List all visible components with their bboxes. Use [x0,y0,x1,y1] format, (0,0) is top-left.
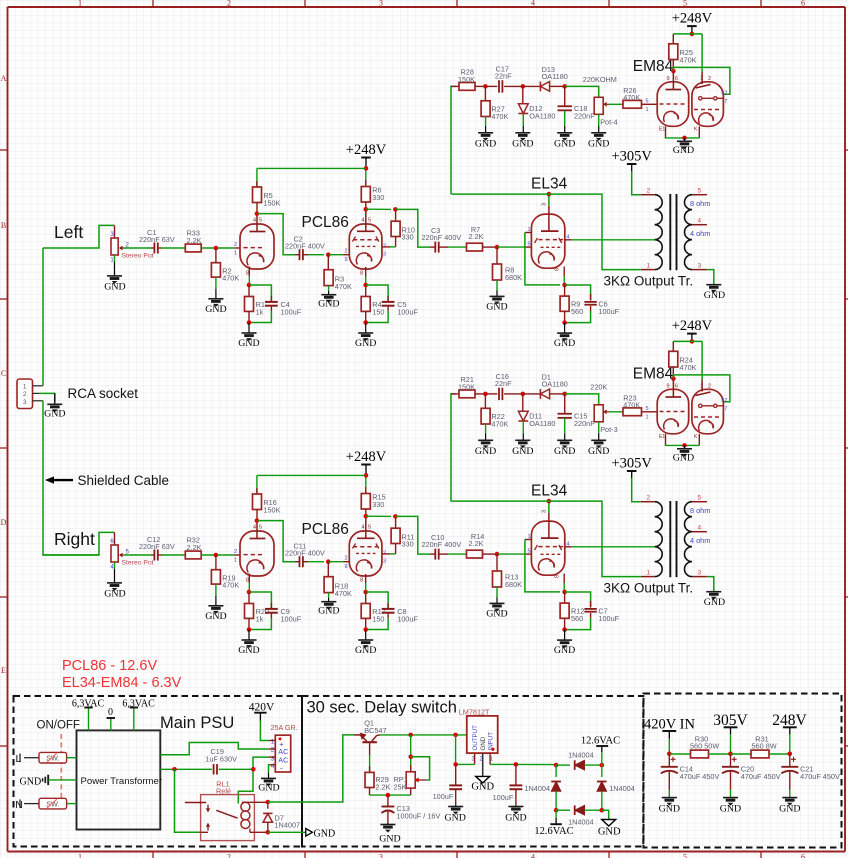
wire EM84 cathodes to ground [665,444,700,446]
resistor R14 2.2K grid stopper [448,532,497,558]
svg-text:GND: GND [258,783,279,794]
ground C20 [720,797,741,815]
ground R8 [486,291,507,313]
svg-text:OUTPUT: OUTPUT [472,725,479,751]
svg-text:GND: GND [704,290,725,301]
wire regulator output bus [456,735,475,765]
svg-text:GND: GND [318,299,339,310]
junction R10 top [393,207,398,212]
capacitor C14 470uF 450V [661,754,720,797]
svg-text:3: 3 [698,263,702,270]
ground R12 [554,630,575,656]
regulator LM7812T [459,707,498,764]
resistor R1 1k cathode [245,285,265,323]
svg-text:1: 1 [271,738,275,745]
ground Pot-4 [588,126,609,150]
wire grid node to EL34 pin5 Left [497,246,531,248]
resistor R10 330 build-out [366,209,415,247]
svg-text:1: 1 [645,107,648,113]
svg-text:330: 330 [372,193,384,202]
resistor R27 470K [481,86,508,126]
svg-text:0: 0 [108,707,113,718]
wire grid node to EL34 pin5 Right [497,553,531,555]
wire triode cathode Right [248,583,250,592]
wire pentode plate to R10 [382,246,390,248]
resistor R20 1k cathode [245,592,269,630]
junction cathode node R1 [247,283,252,288]
svg-text:1: 1 [234,558,237,564]
wire RP1 wiper loop [411,757,430,780]
capacitor C9 100uF bypass [249,592,302,630]
junction R27 [483,84,488,89]
transformer TR2 primary [641,495,662,577]
svg-text:3: 3 [698,570,702,577]
junction R24 bottom [671,376,676,381]
junction EL34 cathode node Left [562,283,567,288]
wire +305V to transformer Right [632,478,641,502]
svg-text:GND: GND [355,338,376,349]
svg-text:470K: 470K [491,419,508,428]
svg-text:5: 5 [698,495,702,502]
svg-text:22nF: 22nF [495,379,512,388]
ground R19 [205,596,226,622]
svg-text:+248V: +248V [672,318,713,334]
svg-text:100uF: 100uF [433,792,454,801]
capacitor C11 220nF 400V [285,542,325,568]
capacitor 100uF output [433,764,463,804]
junction EL34 cathode node Right [562,590,567,595]
svg-text:E1: E1 [659,127,665,133]
svg-text:Stereo Pot: Stereo Pot [122,253,154,260]
ground R3 [318,291,339,310]
svg-text:470K: 470K [623,93,640,102]
wire plate to coupling cap C2 [257,214,295,255]
svg-text:GND: GND [444,812,465,823]
svg-text:2: 2 [234,242,237,248]
svg-text:5: 5 [683,852,687,858]
svg-text:220nF: 220nF [574,419,595,428]
svg-text:3: 3 [271,755,275,762]
svg-text:330: 330 [402,233,414,242]
svg-text:220nF: 220nF [574,111,595,120]
svg-text:4: 4 [253,218,256,224]
capacitor 100uF input [493,764,523,804]
svg-text:1: 1 [700,384,703,390]
svg-text:1: 1 [647,263,651,270]
diode D1 OA1180 series [523,372,568,398]
svg-text:220KOHM: 220KOHM [583,75,617,84]
svg-text:470K: 470K [623,401,640,410]
junction relay coil bottom [266,830,271,835]
junction bridge top-right [600,763,605,768]
svg-text:GND: GND [205,611,226,622]
svg-text:420V: 420V [249,702,275,714]
triode PCL86 section A Right [240,521,274,584]
svg-text:5: 5 [259,525,262,531]
svg-text:8: 8 [555,268,561,271]
resistor R25 470K [669,34,697,71]
svg-text:3: 3 [379,852,383,858]
relay RL1 Rele [185,780,268,841]
diode D7 1N4007 [263,802,300,832]
svg-text:3: 3 [542,203,548,206]
svg-text:470K: 470K [680,55,697,64]
svg-text:LM7812T: LM7812T [459,707,490,716]
svg-text:GND: GND [554,446,575,457]
svg-text:100uF: 100uF [281,307,302,316]
svg-text:52: 52 [721,91,727,97]
svg-text:2: 2 [227,0,231,8]
transformer TR2 secondary [685,495,711,577]
svg-text:7: 7 [724,407,727,413]
RCA socket connector J1 [17,379,43,409]
wire transformer pin3 to ground Right [707,577,714,591]
junction C18 [562,84,567,89]
wire input to volume pot (Right) [43,532,115,555]
ground C21 [779,797,800,815]
svg-text:2: 2 [647,188,651,195]
ground RCA [44,393,65,419]
wire transformer HV to connector pin2 [160,743,269,755]
svg-text:3KΩ Output Tr.: 3KΩ Output Tr. [604,581,694,596]
svg-text:GND: GND [486,609,507,620]
Main PSU dashed box [14,696,303,847]
capacitor C19 1uF 630V [160,747,253,775]
svg-text:EL34: EL34 [531,176,568,193]
svg-text:9: 9 [344,564,347,570]
wire transformer to relay contact [175,769,201,832]
wire B+ node to C3 [395,209,430,247]
capacitor C5 100uF bypass [366,285,419,323]
svg-text:12.6VAC: 12.6VAC [534,826,573,837]
svg-text:150K: 150K [458,382,475,391]
svg-text:25A GR.: 25A GR. [271,723,298,732]
svg-text:GND: GND [205,304,226,315]
svg-text:220nF 400V: 220nF 400V [422,540,462,549]
junction R6 node [364,207,369,212]
junction bridge bottom-left [554,808,559,813]
svg-text:GND: GND [471,781,494,792]
wire EL34 screen to UL tap Left [572,239,655,241]
ground R13 [486,598,507,620]
resistor R29 2.2K [365,755,391,795]
svg-text:1000uF / 16V: 1000uF / 16V [397,811,441,820]
svg-text:GND: GND [104,589,125,600]
resistor R22 470K [481,394,508,434]
svg-text:6: 6 [801,852,805,858]
capacitor C12 220nF 63V [139,535,175,560]
capacitor C10 220nF 400V [422,533,462,560]
svg-text:150: 150 [372,307,384,316]
svg-text:330: 330 [402,540,414,549]
wire EM84 cathodes to ground [665,137,700,139]
ground R17 [355,630,376,657]
svg-text:OA1180: OA1180 [529,419,555,428]
transformer TR2 core [670,501,676,577]
svg-text:5: 5 [645,98,648,104]
wire +248V rail Left [257,167,366,169]
supply 420V [249,702,275,721]
ground C14 [659,797,680,815]
svg-text:1: 1 [647,570,651,577]
svg-text:ON/OFF: ON/OFF [37,720,80,732]
svg-text:150K: 150K [458,75,475,84]
EM84 tube triode section [692,379,728,445]
svg-text:6,3VAC: 6,3VAC [122,699,155,710]
junction EL34 grid node Right [495,552,500,557]
wire EL34 cathode Right [563,583,565,592]
supply 420V IN [644,717,695,754]
ground Pot-3 [588,434,609,458]
svg-text:3: 3 [379,0,383,8]
ground R22 [475,434,496,458]
label Right channel [54,529,95,549]
svg-text:220nF 400V: 220nF 400V [285,549,325,558]
capacitor C6 100uF [565,285,620,323]
svg-text:100uF: 100uF [493,793,514,802]
svg-text:150K: 150K [263,505,280,514]
trimpot RP1 25K [394,735,427,795]
svg-text:5: 5 [527,242,530,248]
wire input to volume pot (Left) [43,225,115,248]
capacitor C20 470uF 450V [722,754,781,797]
svg-text:150: 150 [372,614,384,623]
supply +305V Left [611,149,652,172]
svg-text:GND: GND [554,338,575,349]
wire RCA pin1 to Left channel trunk [42,248,44,386]
svg-text:1N4004: 1N4004 [524,784,550,793]
svg-text:22nF: 22nF [495,72,512,81]
wire R33 to triode grid [201,242,240,257]
label EL34 Left [531,176,568,193]
svg-text:4 ohm: 4 ohm [690,229,710,238]
wire EL34 plate to transformer pin1 Right [451,501,640,576]
svg-text:GND: GND [104,282,125,293]
svg-text:220K: 220K [590,382,607,391]
junction grid node Right [214,553,219,558]
svg-text:C: C [1,369,6,378]
ground C15 [554,434,575,458]
diode D13 OA1180 series [523,65,568,91]
wire regulator input bus [490,763,556,765]
resistor R3 470K grid leak [324,255,352,291]
switch mechanical link dashed [60,734,62,806]
resistor R32 2.2K [185,536,201,559]
ground bridge [598,810,621,837]
wire pentode cathode Right [365,583,367,592]
junction EM84 cathode [682,136,687,141]
wire EL34 cathode Left [563,276,565,285]
capacitor C3 220nF 400V [422,226,462,253]
svg-text:5: 5 [683,0,687,8]
capacitor C4 100uF bypass [249,285,302,323]
wire EL34 screen to UL tap Right [572,546,655,548]
ground R27 [475,126,496,150]
wire +248V rail Right [257,474,366,476]
resistor R7 2.2K grid stopper [448,225,497,251]
connector 25A GR [269,723,298,773]
svg-text:3: 3 [23,399,27,406]
svg-text:GND: GND [314,828,336,839]
wire to pentode grid Right [328,556,349,570]
svg-text:1: 1 [234,251,237,257]
svg-text:+248V: +248V [672,11,713,27]
label 3K ohm output transformer Left [604,274,694,289]
svg-text:GND: GND [238,338,259,349]
junction R25 bottom [671,69,676,74]
supply +248V EM84 [672,11,713,34]
wire C1 to R33 [162,247,186,249]
supply +248V Right [346,449,387,475]
resistor R16 150K plate load [253,475,281,520]
label 3K ohm output transformer Right [604,581,694,596]
wire triode cathode Left [248,276,250,285]
ground transformer Right [704,591,725,608]
label PCL86 Left [302,214,349,231]
svg-text:GND: GND [379,834,400,845]
label EM84 [633,58,674,75]
junction R22 [483,392,488,397]
svg-text:E: E [1,666,6,675]
transformer TR1 core [670,194,676,270]
junction regulator input node [453,733,458,738]
junction R9 bottom [562,320,567,325]
ground EM84 [673,445,694,463]
supply 0 centre tap [107,707,115,731]
svg-text:Shielded Cable: Shielded Cable [78,473,170,488]
svg-text:2.2K: 2.2K [375,782,390,791]
svg-text:4: 4 [531,0,535,8]
junction input cap [514,762,519,767]
label Left channel [54,222,83,242]
svg-text:2: 2 [708,384,711,390]
junction pentode grid node Left [326,252,331,257]
ground input cap [505,805,526,824]
svg-text:N: N [15,799,23,811]
wire pentode plate to R11 [382,553,390,555]
svg-text:1N4004: 1N4004 [609,784,635,793]
svg-text:470K: 470K [222,581,239,590]
junction output cap [453,762,458,767]
label RCA socket [68,386,139,401]
ground R18 [318,598,339,617]
junction C15 [562,392,567,397]
wire relay coil to delay circuit [268,735,354,802]
ground arrow after D7 [268,828,335,839]
capacitor C16 22nF [485,372,522,400]
junction 305V node [728,752,733,757]
svg-text:A: A [1,74,7,83]
svg-text:9: 9 [344,257,347,263]
svg-text:560: 560 [571,307,583,316]
resistor R9 560 [560,285,583,323]
resistor R8 680K [493,247,523,290]
supply +305V Right [611,456,652,479]
svg-text:GND: GND [318,606,339,617]
junction pentode grid node Right [326,559,331,564]
junction R20 bottom [247,627,252,632]
svg-text:OA1180: OA1180 [542,72,568,81]
resistor R21 150K [451,375,485,398]
svg-text:BC547: BC547 [364,726,386,735]
junction R17 bottom [363,627,368,632]
junction R1 bottom [247,320,252,325]
svg-text:470uF 450V: 470uF 450V [741,772,781,781]
svg-text:PCL86: PCL86 [302,214,349,231]
wire R29 RP1 bottom node [370,794,411,796]
30 sec Delay switch dashed box [302,696,643,847]
pentode PCL86 section B Right [349,516,386,583]
ground mains earth [20,775,77,788]
wire B+ node to C10 [395,516,430,554]
diode 1N4004 bridge bottom [556,805,602,826]
svg-text:470uF 450V: 470uF 450V [800,772,840,781]
svg-text:330: 330 [372,500,384,509]
resistor R13 680K [493,554,523,597]
svg-text:4: 4 [362,525,365,531]
svg-text:9: 9 [667,76,670,82]
wire connector pin3 to relay coil [238,757,269,803]
svg-text:220nF 400V: 220nF 400V [422,233,462,242]
ground R4 [355,323,376,350]
svg-text:52: 52 [721,398,727,404]
wire R32 to triode grid [201,549,240,564]
svg-text:OA1180: OA1180 [542,380,568,389]
junction R5 plate node [255,211,260,216]
svg-text:+305V: +305V [611,149,652,165]
resistor R11 330 build-out [366,516,415,554]
transformer TR1 secondary [685,188,711,270]
svg-text:470K: 470K [680,363,697,372]
svg-text:-: - [280,763,283,772]
svg-text:GND: GND [704,597,725,608]
junction EL34 plate Right [547,499,552,504]
potentiometer 220KOHM Pot-4 [565,75,618,127]
junction +248V Left [364,166,369,171]
junction EM84 cathode [682,443,687,448]
junction EL34 plate Left [547,192,552,197]
svg-text:GND: GND [505,812,526,823]
wire plate to coupling cap C11 [257,521,295,562]
junction C19 right [251,767,256,772]
diode D12 OA1180 shunt [518,86,555,126]
svg-text:3KΩ Output Tr.: 3KΩ Output Tr. [604,274,694,289]
diode 1N4004 bridge right [597,765,635,810]
svg-text:Pot-4: Pot-4 [600,118,617,127]
svg-text:EL34: EL34 [531,483,568,500]
resistor R18 470K grid leak [324,562,352,598]
junction +248V EM84 [690,339,695,344]
svg-text:25K: 25K [394,782,407,791]
svg-text:680K: 680K [505,273,522,282]
ground pot Left [104,262,125,293]
junction cathode node R20 [247,590,252,595]
svg-text:470K: 470K [335,282,352,291]
transistor Q1 BC547 [354,719,387,756]
svg-text:GND: GND [554,139,575,150]
svg-text:30 sec. Delay switch: 30 sec. Delay switch [307,699,457,717]
ground output cap [444,805,465,824]
svg-text:2: 2 [234,549,237,555]
svg-text:7: 7 [724,99,727,105]
svg-text:GND: GND [475,446,496,457]
ground R9 [554,323,575,349]
wire +248V to R25 and target [673,341,702,379]
svg-text:2: 2 [271,747,275,754]
resistor R4 150 cathode [361,285,384,323]
diode 1N4004 bridge left [524,765,560,810]
junction D12 [521,84,526,89]
